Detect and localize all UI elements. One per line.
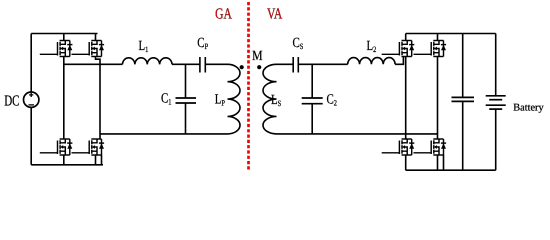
svg-text:C2: C2 — [327, 93, 337, 108]
svg-text:CS: CS — [293, 36, 304, 51]
svg-text:CP: CP — [197, 36, 208, 51]
svg-text:GA: GA — [215, 6, 232, 23]
svg-text:LP: LP — [215, 93, 226, 108]
svg-text:M: M — [252, 49, 263, 64]
svg-text:DC: DC — [4, 93, 19, 110]
svg-text:L2: L2 — [367, 39, 377, 54]
svg-text:L1: L1 — [139, 39, 149, 54]
svg-text:LS: LS — [271, 93, 282, 108]
svg-text:Battery: Battery — [513, 103, 544, 114]
svg-text:C1: C1 — [161, 92, 171, 107]
svg-text:VA: VA — [267, 6, 282, 23]
